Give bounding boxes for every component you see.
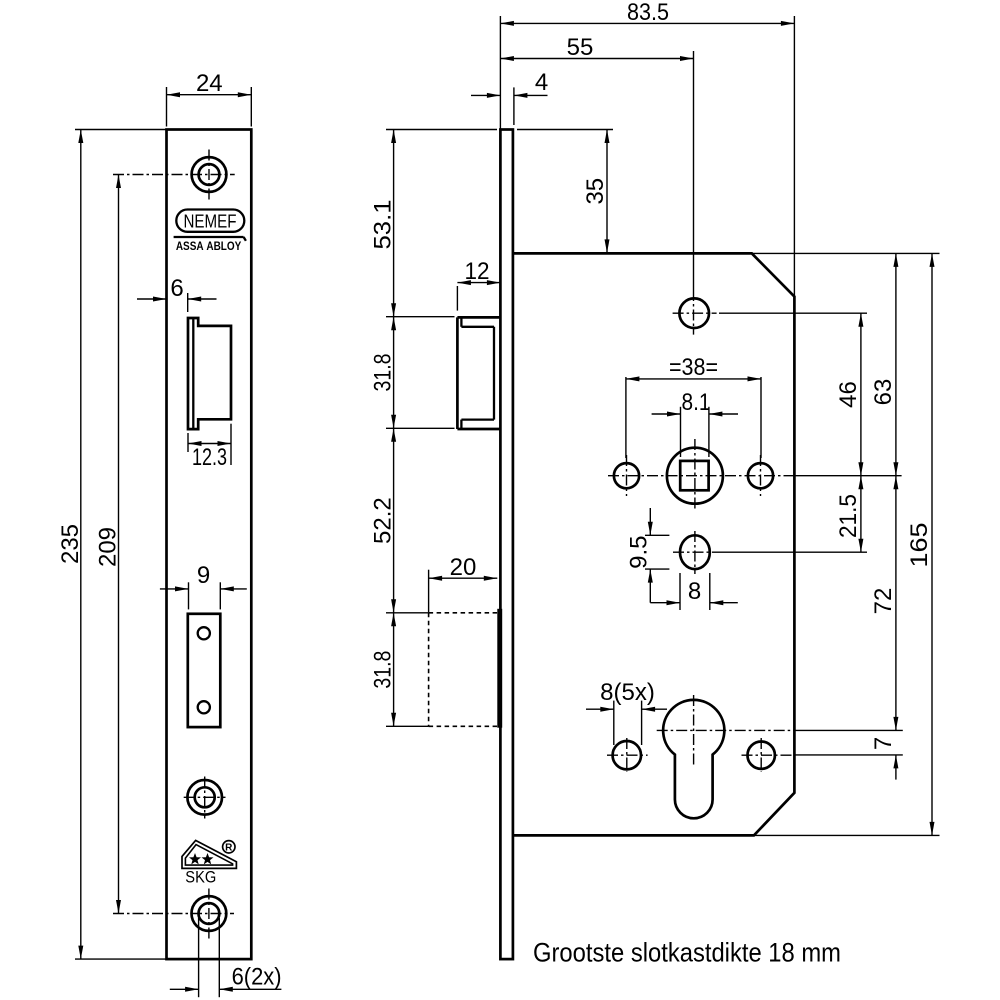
svg-text:12.3: 12.3	[192, 444, 227, 471]
case top hole	[679, 298, 709, 328]
lower small hole	[198, 701, 210, 713]
top screw hole h-centerline / 209 extension	[113, 174, 235, 176]
faceplate front ext line	[499, 16, 501, 130]
faceplate top ext line left part	[386, 129, 497, 131]
dim 8.1 spindle square	[680, 407, 682, 457]
right tick	[219, 582, 221, 609]
svg-text:63: 63	[870, 379, 897, 406]
euro profile cylinder hole	[663, 700, 724, 818]
latch top ext	[386, 316, 455, 318]
case top edge extension	[752, 252, 940, 254]
dims 46 / 21.5	[860, 313, 862, 552]
lock case outline	[513, 253, 795, 835]
svg-text:12: 12	[465, 258, 490, 285]
dim 24 plate width	[166, 87, 168, 127]
hub row h-centerline	[608, 475, 795, 477]
SKG logo	[182, 840, 236, 886]
NEMEF logo oval	[176, 210, 244, 232]
dim 8(5x) fixing hole dia	[613, 701, 615, 745]
latch bottom ext	[386, 427, 455, 429]
bottom ext	[75, 958, 167, 960]
faceplate front view outline	[167, 130, 252, 960]
right ext	[760, 377, 762, 458]
svg-text:8: 8	[688, 578, 701, 605]
top ext	[645, 534, 669, 536]
ext tick	[456, 286, 458, 311]
latch strip inner line	[192, 318, 194, 429]
deadbolt slot black bar	[497, 609, 502, 728]
dim 35	[606, 130, 608, 253]
svg-text:4: 4	[535, 69, 548, 96]
hole centerline ext right	[719, 312, 867, 314]
hole center ext line	[693, 51, 695, 290]
dashed left	[428, 613, 430, 727]
left tick	[188, 582, 190, 609]
underline end tick	[244, 237, 246, 241]
svg-text:35: 35	[582, 178, 609, 205]
bottom screw hole	[192, 896, 227, 931]
svg-text:9: 9	[197, 562, 210, 589]
svg-text:6(2x): 6(2x)	[232, 964, 282, 991]
svg-text:9.5: 9.5	[625, 536, 652, 569]
dashed bottom	[429, 725, 498, 727]
middle fixing hole	[187, 780, 222, 815]
svg-text:53.1: 53.1	[370, 200, 397, 250]
faceplate top ext line right part	[517, 129, 613, 131]
bottom right fixing hole	[748, 742, 775, 769]
svg-text:SKG: SKG	[185, 869, 216, 887]
latch cutout front view	[188, 318, 231, 429]
svg-text:235: 235	[57, 524, 84, 564]
top screw hole v-centerline	[208, 150, 210, 200]
case right edge ext line	[793, 16, 795, 297]
tick at latch edge	[187, 293, 189, 312]
dashed top	[429, 612, 498, 614]
svg-text:8.1: 8.1	[682, 389, 711, 416]
svg-text:83.5: 83.5	[627, 0, 669, 26]
svg-text:21.5: 21.5	[835, 494, 862, 538]
right fixing hole (hub row)	[748, 463, 773, 488]
svg-text:R: R	[225, 842, 233, 853]
dim 165	[931, 253, 933, 835]
svg-text:ASSA ABLOY: ASSA ABLOY	[176, 241, 242, 253]
bottom ext	[645, 568, 669, 570]
hub centerline ext right	[795, 475, 902, 477]
spindle follower hub	[667, 448, 723, 504]
svg-text:6: 6	[170, 275, 183, 302]
case bottom edge extension	[754, 834, 940, 836]
svg-text:24: 24	[196, 70, 223, 97]
svg-text:Grootste slotkastdikte 18 mm: Grootste slotkastdikte 18 mm	[533, 938, 841, 968]
left ext	[625, 377, 627, 458]
bottom right hole centerline ext	[795, 754, 903, 756]
dim 209 hole spacing	[118, 175, 120, 914]
svg-text:52.2: 52.2	[370, 497, 397, 544]
cylinder centerline ext right	[795, 729, 903, 731]
deadbolt bottom ext	[386, 725, 429, 727]
follower stop hole (oval)	[680, 535, 710, 569]
svg-text:55: 55	[567, 34, 594, 61]
cylinder v-centerline	[693, 695, 695, 766]
ext tick	[428, 570, 430, 613]
upper small hole	[198, 627, 210, 639]
logo underline	[174, 236, 244, 238]
svg-text:20: 20	[450, 554, 477, 581]
svg-text:31.8: 31.8	[370, 651, 397, 689]
top screw hole	[192, 157, 227, 192]
svg-text:209: 209	[95, 527, 122, 567]
svg-text:7: 7	[870, 737, 897, 750]
dim 12.3	[187, 433, 189, 452]
left fixing hole (hub row)	[614, 463, 639, 488]
top ext	[75, 129, 167, 131]
follower centerline ext right	[717, 551, 867, 553]
deadbolt slot cover plate	[188, 614, 221, 727]
dim 8 follower hole width	[679, 573, 681, 610]
svg-text:NEMEF: NEMEF	[184, 212, 237, 232]
dim 6(2x) screw hole dia	[198, 918, 200, 997]
svg-text:72: 72	[870, 588, 897, 615]
latch bolt side view	[457, 316, 499, 319]
svg-text:46: 46	[835, 381, 862, 408]
svg-text:165: 165	[906, 523, 933, 568]
cylinder h-centerline	[657, 729, 795, 731]
svg-text:31.8: 31.8	[370, 354, 397, 392]
faceplate side view strip	[500, 130, 513, 960]
deadbolt top ext	[386, 612, 429, 614]
svg-text:=38=: =38=	[669, 354, 718, 381]
bottom left fixing hole	[613, 741, 641, 769]
tick	[513, 87, 515, 125]
spindle square hole	[680, 461, 708, 490]
svg-text:8(5x): 8(5x)	[600, 679, 655, 706]
dims 63 / 72 / 7	[895, 253, 897, 730]
spindle v-centerline	[694, 439, 696, 511]
